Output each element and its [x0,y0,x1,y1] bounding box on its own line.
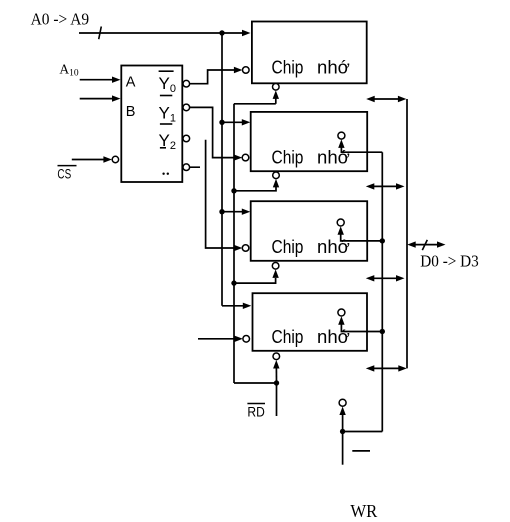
wire data double arrow chip 3 [366,275,405,281]
chip U2 memory box 1 [252,22,367,84]
pin bubble Y1 [183,104,190,111]
wire data double arrow chip 4 [366,365,407,371]
wire RD arrow into chip 4 [273,360,279,383]
select bubble chip 4 [243,336,250,343]
chip U5 memory box 4 [253,293,368,351]
wire A0-A9 bus to chip 1 [79,30,251,36]
bubble RD input below chip 3 [272,263,279,270]
bubble WR source [339,399,346,406]
bubble RD input below chip 4 [273,353,280,360]
wire data bus vertical [406,99,408,368]
wire Y3 line to chip 4 select [198,336,243,342]
svg-text:A: A [126,74,136,90]
pin bubble Y0 [183,80,190,87]
wire Y2 line to chip 3 select [206,140,243,252]
select bubble chip 2 [242,154,249,161]
wire Y0 to chip 1 select [190,67,243,84]
bubble RD input below chip 2 [273,172,280,179]
svg-text:B: B [126,104,136,120]
node junction A-bus on A0-A9 line [219,30,224,35]
chip U3 memory box 2 [251,112,368,171]
label CS with overline [57,166,76,182]
node junction RD branch chip 2 [231,188,236,193]
wire RD arrow into chip 2 [234,179,279,191]
bus slash tick on D0-D3 [422,240,427,250]
wire RD vertical trunk [233,104,235,383]
wire WR bottom run [343,431,383,433]
svg-text:A0 -> A9: A0 -> A9 [31,10,90,29]
wire data double arrow chip 1 [366,96,406,102]
bubble WR input inside chip 4 [338,309,345,316]
svg-text:Chip: Chip [272,327,304,347]
svg-text:Chip: Chip [272,147,304,167]
node junction WR branch chip 3 [380,238,385,243]
pin bubble Y3 [183,164,190,171]
wire WR arrow inside chip 4 [338,316,382,331]
bus slash tick on A0-A9 [99,27,102,40]
svg-text:Chip: Chip [272,58,304,78]
svg-text:WR: WR [350,501,377,521]
wire Y1 to chip 2 select [190,107,243,160]
wire data double arrow chip 2 [366,183,405,189]
wire WR arrow up to bubble [339,407,345,432]
wire WR arrow inside chip 3 [338,226,383,241]
wire arrow into decoder pin B [80,95,121,101]
wire A10 arrow into decoder pin A [80,77,121,83]
decoder output label Y1 with overline [159,96,176,125]
wire WR arrow inside chip 2 [338,139,382,152]
svg-text:nhớ: nhớ [317,58,350,78]
decoder U1 box [121,66,182,183]
wire RD bottom run to trunk [234,382,277,384]
pin bubble Y2 [183,135,190,142]
wire WR tail below junction [342,432,344,465]
decoder output label .. [162,173,164,175]
svg-text:CS: CS [57,166,71,181]
bubble WR input inside chip 2 [338,132,345,139]
overline mark for WR [352,450,370,452]
wire address arrow into chip 4 [222,303,251,309]
bubble RD input below chip 1 [273,84,280,91]
pin stub Y3 [190,166,200,168]
wire CS arrow into decoder [72,156,112,162]
wire RD branch chip 1 [234,103,276,105]
node junction to chip 3 address [219,209,224,214]
bubble WR input inside chip 3 [337,219,344,226]
chip U4 memory box 3 [251,201,368,261]
wire A-bus vertical [221,33,223,306]
wire address arrow into chip 2 [222,119,250,125]
wire RD source stem [276,383,278,416]
svg-text:Chip: Chip [272,237,304,257]
decoder underline mark below Y2 [160,147,166,149]
svg-text:D0 -> D3: D0 -> D3 [420,252,479,271]
wire WR vertical trunk [381,152,383,431]
node junction RD branch chip 3 [231,280,236,285]
select bubble chip 1 [243,67,250,74]
svg-text:nhớ: nhớ [317,147,350,167]
label RD with overline [247,404,265,420]
node junction WR branch chip 4 [380,329,385,334]
node junction RD below chip 4 [274,380,279,385]
wire RD arrow into chip 3 [234,269,279,283]
wire RD arrow into chip 1 [273,90,279,103]
decoder output label Y0 with overline [159,71,176,95]
decoder output label Y2 with overline [159,124,176,152]
select bubble chip 3 [242,245,249,252]
svg-text:RD: RD [247,404,265,419]
wire address arrow into chip 3 [222,209,250,215]
wire D0-D3 double arrow [407,241,445,247]
node junction WR bottom [340,429,345,434]
input bubble CS on decoder [112,156,118,162]
node junction to chip 2 address [219,120,224,125]
svg-text:nhớ: nhớ [317,327,350,347]
